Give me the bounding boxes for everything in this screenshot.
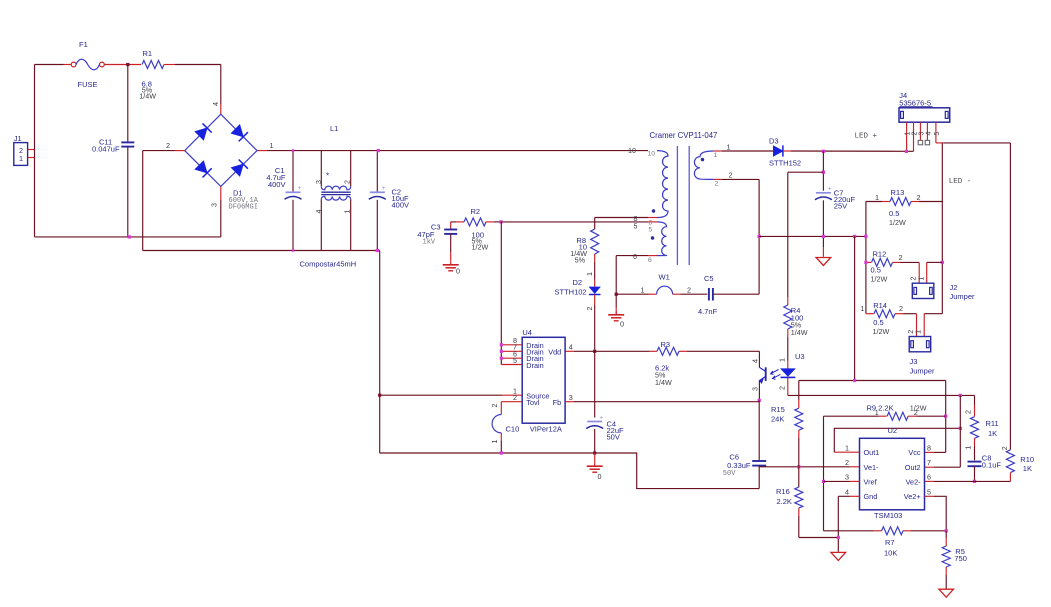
svg-text:1/4W: 1/4W (791, 328, 808, 337)
connector J1 (14, 143, 28, 166)
U4 pin1 Source lead (380, 394, 502, 396)
svg-text:Vref: Vref (864, 477, 878, 486)
U3 LED (787, 361, 789, 369)
resistor R1 (142, 61, 164, 69)
wire bridge pin2 to return (175, 150, 185, 152)
wire J4 pin5 LED- row (936, 142, 944, 144)
svg-text:2: 2 (687, 286, 691, 295)
wire drain column to U4 (500, 222, 502, 365)
svg-text:6: 6 (648, 257, 652, 264)
junction divider top (853, 379, 856, 382)
svg-text:1: 1 (963, 446, 972, 450)
svg-text:D2: D2 (573, 278, 583, 287)
svg-text:R11: R11 (986, 419, 999, 428)
svg-text:STTH152: STTH152 (769, 159, 801, 168)
wire bottom AC return row (35, 236, 221, 238)
wire J2 pins (918, 262, 920, 283)
svg-text:1: 1 (777, 358, 786, 362)
wire LED- to R13 column (941, 143, 943, 314)
svg-text:2: 2 (585, 307, 594, 311)
capacitor C11 (127, 65, 129, 143)
resistor R14 (866, 313, 874, 315)
svg-text:Jumper: Jumper (950, 292, 976, 301)
wire DC- return rail (143, 250, 380, 252)
junction Gnd/R16 rail (837, 536, 840, 539)
svg-text:2: 2 (899, 253, 903, 262)
junction C7/R4 row (822, 171, 825, 174)
svg-text:R2: R2 (471, 207, 481, 216)
svg-text:2: 2 (715, 181, 719, 188)
svg-text:0.33uF: 0.33uF (727, 461, 751, 470)
junction R9 pin2 (944, 415, 947, 418)
ground 0 at W1 (615, 311, 617, 315)
resistor R11 (974, 395, 976, 405)
wire Vout+ row from D3 (714, 150, 723, 152)
svg-text:4: 4 (845, 487, 849, 496)
svg-text:C10: C10 (506, 424, 520, 433)
svg-text:Ve1-: Ve1- (864, 463, 880, 472)
svg-text:2: 2 (917, 193, 921, 202)
svg-text:2: 2 (914, 408, 918, 417)
svg-text:1/2W: 1/2W (873, 327, 890, 336)
svg-text:1: 1 (270, 141, 274, 150)
svg-text:U3: U3 (795, 352, 805, 361)
svg-text:2: 2 (777, 386, 786, 390)
svg-text:U4: U4 (522, 328, 532, 337)
svg-text:TSM103: TSM103 (874, 511, 902, 520)
svg-text:3: 3 (210, 203, 219, 207)
svg-text:2: 2 (343, 180, 352, 184)
wire Ve2- row (925, 480, 935, 482)
wire Vdd column to C4 (594, 351, 596, 417)
junction source rail (378, 394, 381, 397)
capacitor C6 (758, 400, 760, 460)
resistor R12 (866, 261, 871, 263)
svg-text:Compostar45mH: Compostar45mH (300, 260, 357, 269)
resistor R10 (1006, 450, 1014, 473)
svg-text:1/4W: 1/4W (655, 378, 672, 387)
ground at U2 Gnd (831, 552, 846, 560)
svg-text:4: 4 (925, 131, 932, 135)
junction C10 bottom (500, 451, 503, 454)
svg-text:5: 5 (927, 487, 931, 496)
junction C11 bottom (128, 235, 131, 238)
svg-text:1kV: 1kV (423, 239, 436, 247)
junction R2 / drain column (499, 220, 502, 223)
svg-text:1: 1 (727, 143, 731, 152)
wire R15 top row (799, 380, 946, 382)
svg-text:DF06MGI: DF06MGI (229, 204, 258, 212)
resistor R4 (787, 172, 789, 297)
svg-text:R9 2.2K: R9 2.2K (867, 404, 894, 413)
svg-text:R14: R14 (873, 301, 887, 310)
svg-text:5: 5 (634, 221, 638, 230)
svg-text:25V: 25V (834, 202, 847, 211)
svg-text:0.5: 0.5 (871, 266, 881, 275)
svg-text:3: 3 (918, 131, 925, 135)
junction J4 pin1 on Vout rail (905, 150, 908, 153)
junction R12 row (941, 261, 944, 264)
ground at R5 (939, 589, 954, 597)
junction Fb/emitter/C6 (758, 399, 761, 402)
junction row B / Out column (959, 394, 962, 397)
wire bridge pin3 lead (220, 186, 222, 200)
junction row C (959, 427, 962, 430)
wire transformer pin8 row (595, 217, 648, 219)
polarity dot aux (651, 236, 654, 239)
svg-text:Drain: Drain (526, 361, 543, 370)
junction Vdd (593, 350, 596, 353)
wire opto output row (FB row B) (788, 394, 975, 396)
svg-text:1: 1 (641, 286, 645, 295)
svg-text:3: 3 (569, 393, 573, 402)
wire U3 collector (758, 351, 760, 367)
svg-text:4: 4 (569, 342, 573, 351)
svg-text:2.2K: 2.2K (777, 497, 792, 506)
svg-text:1/4W: 1/4W (139, 92, 156, 101)
svg-text:0: 0 (620, 320, 624, 329)
junction W1 (615, 293, 618, 296)
wire drain node to transformer pin5 (501, 221, 648, 223)
wire divider column (854, 236, 856, 380)
svg-text:W1: W1 (659, 273, 670, 282)
wire source bottom rail (380, 453, 759, 489)
wire Vcc column (945, 381, 947, 453)
svg-text:2: 2 (963, 410, 972, 414)
svg-text:5: 5 (934, 131, 941, 135)
wire Ve1- row (759, 466, 849, 468)
junction U4 pin8 (500, 343, 503, 346)
svg-text:1: 1 (845, 443, 849, 452)
capacitor C8 (968, 461, 982, 463)
resistor R16 (795, 487, 803, 508)
J4 pin 3 (919, 122, 921, 140)
svg-text:24K: 24K (771, 415, 784, 424)
wire U2 pin5 column (925, 495, 935, 497)
wire Out column (959, 395, 961, 467)
svg-text:1: 1 (916, 277, 925, 281)
capacitor C4 (587, 421, 602, 423)
resistor R7 (882, 527, 904, 535)
svg-text:4: 4 (211, 102, 220, 106)
capacitor C1 (292, 151, 294, 193)
wire bridge top lead (220, 65, 222, 105)
U4 pin leads left (501, 344, 522, 346)
svg-text:400V: 400V (392, 200, 410, 209)
junction C7 bottom (822, 235, 825, 238)
svg-text:8: 8 (649, 220, 653, 227)
svg-text:6: 6 (633, 252, 637, 261)
no-connect square pin3 (918, 140, 922, 144)
resistor R8 (594, 218, 596, 230)
svg-text:8: 8 (927, 443, 931, 452)
svg-text:1: 1 (714, 152, 718, 159)
svg-text:+: + (298, 185, 302, 192)
wire return down to source rail (379, 251, 381, 454)
ground 0 at C4 (594, 463, 596, 467)
J4 pin 4 (926, 122, 928, 140)
svg-text:R3: R3 (661, 340, 671, 349)
svg-text:0.1uF: 0.1uF (982, 460, 1002, 469)
resistor R3 (565, 350, 574, 352)
svg-text:Fb: Fb (553, 398, 562, 407)
resistor R2 (451, 221, 456, 223)
svg-text:1: 1 (19, 154, 23, 163)
svg-text:1/2W: 1/2W (910, 404, 927, 413)
U3 phototransistor (765, 367, 767, 381)
svg-text:2: 2 (899, 304, 903, 313)
bridge rectifier D1 (185, 114, 257, 186)
svg-text:FUSE: FUSE (78, 80, 98, 89)
svg-text:10K: 10K (884, 549, 897, 558)
svg-text:Out1: Out1 (864, 448, 880, 457)
junction D3/C7 (822, 150, 825, 153)
svg-text:R16: R16 (776, 487, 790, 496)
svg-text:F1: F1 (79, 40, 88, 49)
wire Out1 column and row C (834, 451, 859, 453)
wire transformer pin6 to ground column (648, 255, 657, 257)
fuse F1 (71, 62, 76, 67)
wire Vref lead (824, 480, 850, 482)
junction C8/Ve2- row (973, 480, 976, 483)
wire Vcc lead (925, 451, 935, 453)
resistor R9 (824, 415, 879, 417)
svg-text:Gnd: Gnd (864, 492, 878, 501)
svg-text:LED -: LED - (949, 178, 972, 186)
junction C1 top (292, 149, 295, 152)
no-connect square pin4 (925, 140, 929, 144)
junction at R13 column (864, 235, 867, 238)
svg-text:1: 1 (914, 330, 923, 334)
svg-text:2: 2 (490, 404, 499, 408)
transformer core (676, 146, 678, 265)
junction R12 pin1 (864, 261, 867, 264)
svg-text:R12: R12 (873, 250, 887, 259)
svg-text:1: 1 (875, 408, 879, 417)
IC U4 VIPer12A (522, 337, 565, 423)
svg-text:3: 3 (845, 473, 849, 482)
wire R9 pin1 column down to R7 row (823, 416, 825, 531)
ground at C7 (816, 258, 831, 266)
svg-text:50V: 50V (607, 433, 620, 442)
svg-text:Out2: Out2 (905, 463, 921, 472)
ground 0 at C3 (450, 261, 452, 265)
svg-text:LED +: LED + (855, 133, 878, 141)
svg-text:2: 2 (845, 458, 849, 467)
svg-text:J2: J2 (950, 283, 958, 292)
wire J4 pin1-pin2 tie (907, 150, 914, 152)
resistor R5 (945, 531, 947, 538)
svg-text:Jumper: Jumper (910, 366, 936, 375)
svg-text:*: * (326, 172, 329, 181)
U3 emission arrows (771, 370, 779, 375)
svg-text:7: 7 (927, 458, 931, 467)
junction U4 pin7 (500, 350, 503, 353)
svg-text:0: 0 (456, 267, 460, 276)
polarity dot secondary (701, 158, 704, 161)
svg-text:R13: R13 (891, 188, 905, 197)
jumper J3 (909, 337, 931, 352)
svg-text:1: 1 (861, 304, 865, 313)
wire R16 to gnd rail (799, 537, 839, 539)
svg-text:3: 3 (750, 387, 759, 391)
junction Vref (822, 480, 825, 483)
junction Ve1-/divider (797, 465, 800, 468)
wire left vertical J1 loop (34, 65, 36, 237)
junction R7/R5 (945, 529, 948, 532)
svg-text:1K: 1K (988, 429, 997, 438)
svg-text:5: 5 (649, 227, 653, 234)
svg-text:2: 2 (166, 141, 170, 150)
capacitor C2 (376, 151, 378, 193)
wire LED- far right column (1009, 143, 1011, 450)
svg-text:Ve2+: Ve2+ (904, 492, 921, 501)
wire secondary pin2 column (714, 178, 723, 180)
svg-text:J1: J1 (14, 134, 22, 143)
svg-text:2: 2 (729, 171, 733, 180)
svg-text:5%: 5% (575, 256, 586, 265)
wire R4 top row (788, 171, 824, 173)
wire R13 left column (865, 202, 867, 314)
svg-text:Vdd: Vdd (548, 348, 561, 357)
svg-text:1/2W: 1/2W (889, 218, 906, 227)
wire fuse to R1 junction (104, 64, 141, 66)
resistor R15 (798, 381, 800, 401)
svg-text:0.047uF: 0.047uF (92, 145, 120, 154)
J4 pin 2 (913, 122, 915, 151)
IC U2 TSM103 (860, 438, 925, 510)
svg-text:1K: 1K (1023, 464, 1032, 473)
svg-text:400V: 400V (268, 180, 286, 189)
wire J3 pins (916, 314, 918, 337)
svg-text:5: 5 (513, 356, 517, 365)
wire AC top row (35, 64, 64, 66)
svg-text:2: 2 (1000, 446, 1009, 450)
U4 pin2 Tovl lead (501, 401, 522, 403)
svg-text:Vcc: Vcc (908, 448, 921, 457)
svg-text:10: 10 (648, 151, 656, 158)
wire jumper W1 (616, 293, 648, 295)
svg-text:U2: U2 (888, 426, 898, 435)
resistor R13 (866, 201, 882, 203)
svg-text:R10: R10 (1020, 455, 1034, 464)
svg-text:C5: C5 (704, 274, 714, 283)
svg-text:+: + (599, 414, 603, 421)
J4 pin 1 (906, 122, 908, 151)
junction C4/source rail (593, 451, 596, 454)
junction sense row to divider (853, 235, 856, 238)
svg-text:2: 2 (513, 393, 517, 402)
wire Out2 lead (925, 466, 935, 468)
svg-text:750: 750 (954, 554, 967, 563)
svg-text:0: 0 (598, 472, 602, 481)
svg-text:R1: R1 (143, 49, 153, 58)
jumper J2 (912, 283, 934, 298)
svg-text:Cramer CVP11-047: Cramer CVP11-047 (650, 131, 718, 140)
svg-text:50V: 50V (723, 470, 736, 478)
svg-text:Tovl: Tovl (526, 398, 539, 407)
svg-text:1/2W: 1/2W (472, 243, 489, 252)
svg-text:535676-5: 535676-5 (899, 99, 931, 108)
capacitor C7 (822, 151, 824, 190)
junction C2 top (377, 149, 380, 152)
wire Gnd lead (838, 495, 849, 497)
J4 pin 5 (935, 122, 937, 143)
wire W1 ground stub (615, 308, 617, 315)
svg-text:Ve2-: Ve2- (906, 477, 922, 486)
svg-text:D3: D3 (769, 137, 779, 146)
svg-text:R15: R15 (771, 405, 785, 414)
diode D3 STTH152 (773, 146, 783, 156)
svg-text:1: 1 (490, 440, 499, 444)
svg-text:4: 4 (750, 359, 759, 363)
capacitor C5 (708, 288, 710, 301)
wire bridge pin1 / DC+ rail (257, 150, 267, 152)
wire Gnd column (837, 496, 839, 552)
junction secondary/C7 row (757, 235, 760, 238)
capacitor C10 (wire bump) (500, 402, 502, 415)
junction U4 pin6 (500, 357, 503, 360)
wire R7 row (824, 530, 874, 532)
svg-text:4: 4 (314, 210, 323, 214)
junction fuse/C11/R1 (126, 63, 129, 66)
wire U3 emitter to Fb row (758, 381, 760, 401)
junction C1 bottom (292, 249, 295, 252)
svg-text:1: 1 (343, 210, 352, 214)
svg-text:L1: L1 (330, 124, 338, 133)
svg-text:0.5: 0.5 (889, 209, 899, 218)
svg-text:3: 3 (314, 180, 323, 184)
capacitor C3 (450, 222, 452, 230)
svg-text:10: 10 (628, 146, 636, 155)
svg-text:1: 1 (585, 272, 594, 276)
svg-text:R7: R7 (885, 538, 895, 547)
wire Vout sense row (759, 235, 866, 237)
svg-text:+: + (382, 185, 386, 192)
polarity dot primary (652, 209, 655, 212)
svg-text:+: + (828, 186, 832, 193)
junction C2 bottom (376, 249, 379, 252)
svg-text:J3: J3 (910, 357, 918, 366)
wire C4 to ground (594, 453, 596, 463)
svg-text:6: 6 (927, 473, 931, 482)
svg-text:0.5: 0.5 (873, 318, 883, 327)
U4 pin3 Fb row (565, 401, 574, 403)
svg-text:STTH102: STTH102 (555, 288, 587, 297)
svg-text:VIPer12A: VIPer12A (530, 424, 562, 433)
diode D2 STTH102 (594, 280, 596, 288)
svg-text:4.7nF: 4.7nF (698, 307, 718, 316)
svg-text:1: 1 (875, 193, 879, 202)
svg-text:1/2W: 1/2W (871, 275, 888, 284)
